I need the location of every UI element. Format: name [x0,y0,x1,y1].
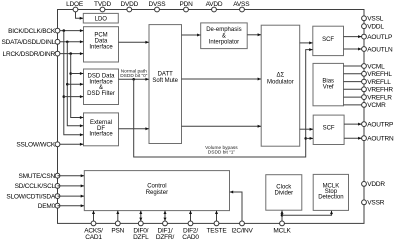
wire TESTE to Control Register [215,211,218,224]
wire De-emphasis to Delta-Sigma Modulator [247,33,261,36]
svg-text:Interpolator: Interpolator [209,39,239,45]
pin label SMUTE/CSN [19,173,56,180]
pin label VCMR [367,102,386,109]
svg-text:DEM0: DEM0 [38,203,56,210]
pin label ACKS/ CAD1 [84,227,103,241]
pin label DVDD [120,1,138,8]
wire Bias Vref to VREFLL [344,81,365,83]
branch SDATA bus to DSD Filter input [67,83,83,86]
pin SMUTE/CSN [55,173,60,178]
pin AVDD [212,7,217,12]
wire DATT to Delta-Sigma Modulator low [182,125,262,128]
wire External DF Interface to DATT [119,127,149,130]
svg-text:Interface: Interface [89,44,113,50]
wire BICK to PCM Data Interface [58,29,84,32]
pin PDN [184,7,189,12]
pin VREFHL [362,71,367,76]
pin VREFLR [362,95,367,100]
chip outline border [58,10,365,224]
pin label DIF2/ CAD0 [182,227,199,241]
wire DSD volume bypass path to left SCF [134,48,313,157]
block External DF Interface [84,113,119,146]
wire left SCF to AOUTLN [344,48,362,51]
wire SDATA to PCM Data Interface [58,40,84,43]
branch BICK bus to DSD Filter input [64,95,84,98]
pin label DIF0/ DZFL [133,227,149,241]
pin label DIF1/ DZFR/ [156,227,175,241]
svg-text:ΔΣ: ΔΣ [277,73,285,79]
pin VDDL [362,24,367,29]
svg-text:AOUTRP: AOUTRP [367,121,393,128]
pin VCMR [362,103,367,108]
svg-text:VCML: VCML [367,63,385,70]
block De-emphasis and Interpolator [201,23,248,49]
pin label SDATA/DSDL/DINL [2,39,56,46]
svg-text:VSSR: VSSR [367,200,384,207]
pin label MCLK [273,227,291,234]
wire I2C/INV to Control Register [230,191,242,224]
pin DIF0/ DZFL [138,221,143,226]
pin VSSL [362,16,367,21]
wire Bias Vref to VCMR [344,104,365,106]
pin label AVSS [233,1,250,8]
pin label PDN [179,1,193,8]
svg-text:MCLK: MCLK [273,227,291,234]
wire Bias Vref to VREFLR [344,96,365,98]
pin label PSN [111,227,124,234]
wire SSLOW/WCK to External DF Interface [58,143,84,146]
pin DIF2/ CAD0 [188,221,193,226]
bus LRCK down to External DF Interface [69,54,83,119]
wire Bias Vref to VCML [344,65,365,67]
svg-text:Interface: Interface [89,132,113,138]
pin AVSS [240,7,245,12]
svg-text:AOUTRN: AOUTRN [367,136,394,143]
svg-text:Divider: Divider [274,191,293,197]
pin AOUTLP [362,34,367,39]
pin AOUTRP [362,122,367,127]
svg-text:I2C/INV: I2C/INV [231,227,253,234]
bus BICK down to External DF Interface [63,31,84,137]
svg-text:SLOW/CDTI/SDA: SLOW/CDTI/SDA [6,193,56,200]
annotation normal path DSDD bit 0 [120,69,148,80]
pin label VSSL [367,16,383,23]
wire right SCF to AOUTRN [344,137,361,140]
block Control Register [84,171,229,211]
pin BICK/DCLK/BCK [55,28,60,33]
pin PSN [115,221,120,226]
svg-text:SMUTE/CSN: SMUTE/CSN [19,173,56,180]
wire SLOW to Control Register [58,195,85,198]
pin MCLK [280,221,285,226]
pin label VREFLR [367,94,392,101]
svg-text:VREFLR: VREFLR [367,94,392,101]
pin VREFHR [362,87,367,92]
block SCF left channel [313,26,344,55]
svg-text:CAD1: CAD1 [85,234,102,241]
block Bias Vref [313,63,344,105]
pin AOUTRN [362,136,367,141]
wire Bias Vref to VREFHL [344,73,365,75]
wire MCLK to MCLK Stop Detection [282,211,333,216]
pin AOUTLN [362,47,367,52]
wire PCM Data Interface to DATT [119,41,149,44]
svg-text:DZFR/: DZFR/ [156,234,175,241]
pin label I2C/INV [231,227,253,234]
wire right SCF to AOUTRP [344,123,361,126]
block LDO [83,13,118,23]
svg-text:VREFHR: VREFHR [367,87,393,94]
svg-text:Modulator: Modulator [267,79,294,85]
svg-text:De-emphasis: De-emphasis [206,27,241,33]
pin label SLOW/CDTI/SDA [6,193,56,200]
bus SDATA down to External DF Interface [66,42,83,127]
pin label AVDD [206,1,223,8]
pin label VREFHR [367,87,393,94]
svg-text:TESTE: TESTE [207,227,228,234]
pin LRCK/DSDR/DINR [55,51,60,56]
wire DSD normal path to DATT [119,78,149,81]
pin label VREFHL [367,71,392,78]
pin label BICK/DCLK/BCK [8,28,56,35]
pin LDOE [73,7,78,12]
branch volume bypass to right SCF [306,137,313,140]
wire SMUTE to Control Register [58,174,85,177]
pin DVSS [155,7,160,12]
pin SLOW/CDTI/SDA [55,194,60,199]
wire Bias Vref to VREFHR [344,88,365,90]
block Delta-Sigma Modulator [261,25,300,146]
block PCM Data Interface [84,27,119,62]
wire Modulator to right SCF [300,128,313,131]
pin DEM0 [55,203,60,208]
pin VCML [362,64,367,69]
svg-text:DSDD bit “1”: DSDD bit “1” [208,150,236,156]
pin SDATA/DSDL/DINL [55,39,60,44]
pin label VREFLL [367,79,391,86]
wire DIF0/DZFL to Control Register [139,211,142,224]
block SCF right channel [313,115,344,144]
wire DIF1/DZFR to Control Register [164,211,167,224]
pin ACKS/ CAD1 [91,221,96,226]
pin label AOUTLN [367,46,393,53]
pin TESTE [214,221,219,226]
svg-text:LDO: LDO [95,17,108,23]
wire LRCK to PCM Data Interface [58,52,84,55]
pin label AOUTRP [367,121,393,128]
pin label VSSR [367,200,384,207]
pin label LRCK/DSDR/DINR [3,51,56,58]
pin VREFLL [362,79,367,84]
svg-text:DATT: DATT [158,71,174,77]
wire DEM0 to Control Register [58,204,85,207]
svg-text:SSLOW/WCK: SSLOW/WCK [16,142,56,149]
pin VSSR [362,200,367,205]
pin TVDD [100,7,105,12]
svg-text:LRCK/DSDR/DINR: LRCK/DSDR/DINR [3,51,56,58]
pin label TVDD [94,1,111,8]
svg-text:SCF: SCF [323,125,335,131]
pin label VDDR [367,181,385,188]
svg-text:VREFHL: VREFHL [367,71,392,78]
annotation volume bypass DSDD bit 1 [205,145,238,156]
pin label SD/CCLK/SCL [15,183,56,190]
wire ACKS/CAD1 to Control Register [92,211,95,224]
svg-text:Soft Mute: Soft Mute [152,78,178,84]
pin SD/CCLK/SCL [55,184,60,189]
svg-text:Register: Register [146,190,168,196]
wire DATT to Delta-Sigma Modulator mid [182,78,262,81]
svg-text:VSSL: VSSL [367,16,383,23]
pin label DVSS [149,1,167,8]
svg-text:DSD Filter: DSD Filter [87,91,115,97]
wire Modulator to left SCF [300,41,313,44]
svg-text:VDDL: VDDL [367,24,384,31]
svg-text:PSN: PSN [111,227,124,234]
pin label VCML [367,63,385,70]
svg-text:BICK/DCLK/BCK: BICK/DCLK/BCK [8,28,56,35]
wire SD to Control Register [58,184,85,187]
wire LDOE to LDO input [76,10,84,20]
svg-text:CAD0: CAD0 [182,234,199,241]
svg-text:SDATA/DSDL/DINL: SDATA/DSDL/DINL [2,39,56,46]
svg-text:VDDR: VDDR [367,181,385,188]
svg-text:SCF: SCF [322,37,334,43]
pin label DEM0 [38,203,56,210]
pin label AOUTRN [367,136,394,143]
block DATT Soft Mute [149,25,182,144]
svg-text:Vref: Vref [323,85,334,91]
svg-text:Bias: Bias [322,79,334,85]
pin DVDD [127,7,132,12]
block DSD Data Interface and DSD Filter [84,69,119,105]
wire MCLK to Clock Divider [281,211,284,224]
svg-text:DSDD bit “0”: DSDD bit “0” [120,73,148,79]
pin label VDDL [367,24,384,31]
svg-text:SD/CCLK/SCL: SD/CCLK/SCL [15,183,56,190]
svg-text:AOUTLN: AOUTLN [367,46,393,53]
svg-text:DZFL: DZFL [133,234,149,241]
svg-text:&: & [222,33,226,39]
pin I2C/INV [240,221,245,226]
branch LRCK bus to DSD Filter input [71,72,84,75]
svg-text:VCMR: VCMR [367,102,386,109]
svg-text:VREFLL: VREFLL [367,79,391,86]
pin label SSLOW/WCK [16,142,56,149]
pin label AOUTLP [367,34,392,41]
wire PSN to Control Register [116,211,119,224]
wire DIF2/CAD0 to Control Register [189,211,192,224]
pin SSLOW/WCK [55,142,60,147]
wire DATT to De-emphasis [182,34,201,37]
block Clock Divider [266,175,302,211]
pin DIF1/ DZFR/ [163,221,168,226]
wire left SCF to AOUTLP [344,35,362,38]
pin label LDOE [66,1,84,8]
block MCLK Stop Detection [313,174,348,210]
pin label TESTE [207,227,228,234]
svg-text:Control: Control [147,184,166,190]
svg-text:Detection: Detection [318,195,343,201]
svg-text:AOUTLP: AOUTLP [367,34,392,41]
pin VDDR [362,182,367,187]
